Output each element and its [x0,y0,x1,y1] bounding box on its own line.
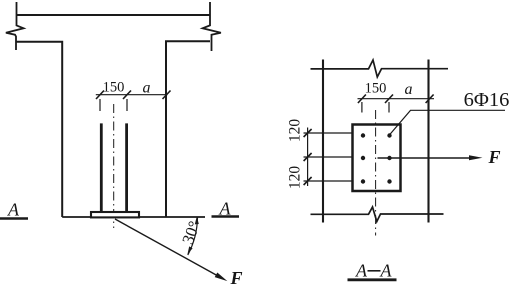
tick middle [123,91,131,100]
svg-text:a: a [405,81,413,98]
centerline left figure [113,104,115,228]
right column right edge [427,60,429,223]
beam soffit left and stem left edge [17,42,63,217]
svg-text:A: A [355,261,368,281]
extension stub left [361,102,363,113]
force F arrowhead right figure [469,155,483,160]
svg-text:30°: 30° [178,219,204,247]
arc arrowhead top [195,216,199,224]
tick left [96,91,104,100]
leader line 6phi16 [390,110,505,134]
extension stub middle [388,102,390,113]
centerline right figure [375,110,377,236]
svg-text:a: a [143,80,151,97]
tick right [163,91,171,100]
tick right right-figure [426,95,434,104]
leader row3 [304,180,353,182]
svg-text:A: A [219,199,232,219]
beam left edge with break [6,2,24,50]
right top line with break [311,60,449,77]
svg-text:6Φ16: 6Φ16 [464,89,509,111]
svg-text:120: 120 [287,119,304,143]
svg-text:150: 150 [103,80,125,96]
embedded bar left [100,123,103,211]
dimension line 150/a left figure [96,94,168,96]
section mark A right underline [212,215,240,217]
svg-text:F: F [487,147,500,167]
svg-text:A: A [7,200,20,220]
dash between A and A [368,270,381,272]
tick row1 [304,129,312,137]
svg-text:120: 120 [287,166,304,190]
beam top line [17,14,211,16]
svg-text:A: A [380,261,393,281]
anchor plate left figure [91,212,139,217]
stem bottom line [62,216,205,218]
tick row3 [304,177,312,185]
dimension line 150/a right figure [358,98,435,100]
tick left right-figure [358,95,366,104]
rebar dots [361,133,392,183]
svg-text:F: F [229,268,242,288]
tick row2 [304,153,312,161]
svg-text:150: 150 [365,81,387,97]
leader row2 [304,156,353,158]
section title underline A-A [348,278,397,281]
tick middle right-figure [385,95,393,104]
force F line right figure [378,157,471,159]
beam right edge with break [203,2,221,51]
right bottom line with break [311,207,444,222]
extension line left [99,99,101,111]
vertical dimension line 120s [307,128,309,187]
right column left edge [322,60,324,223]
anchor plate section rectangle [353,125,401,192]
arc arrowhead bottom [187,246,192,254]
section mark A left underline [0,217,28,219]
embedded bar right [125,123,128,211]
extension line middle [126,99,128,111]
force F arrowhead left figure [215,273,228,282]
force F line left figure [115,219,218,276]
angle arc 30 degrees [188,218,198,256]
beam soffit right and stem right edge [166,41,210,217]
leader row1 [304,132,353,134]
